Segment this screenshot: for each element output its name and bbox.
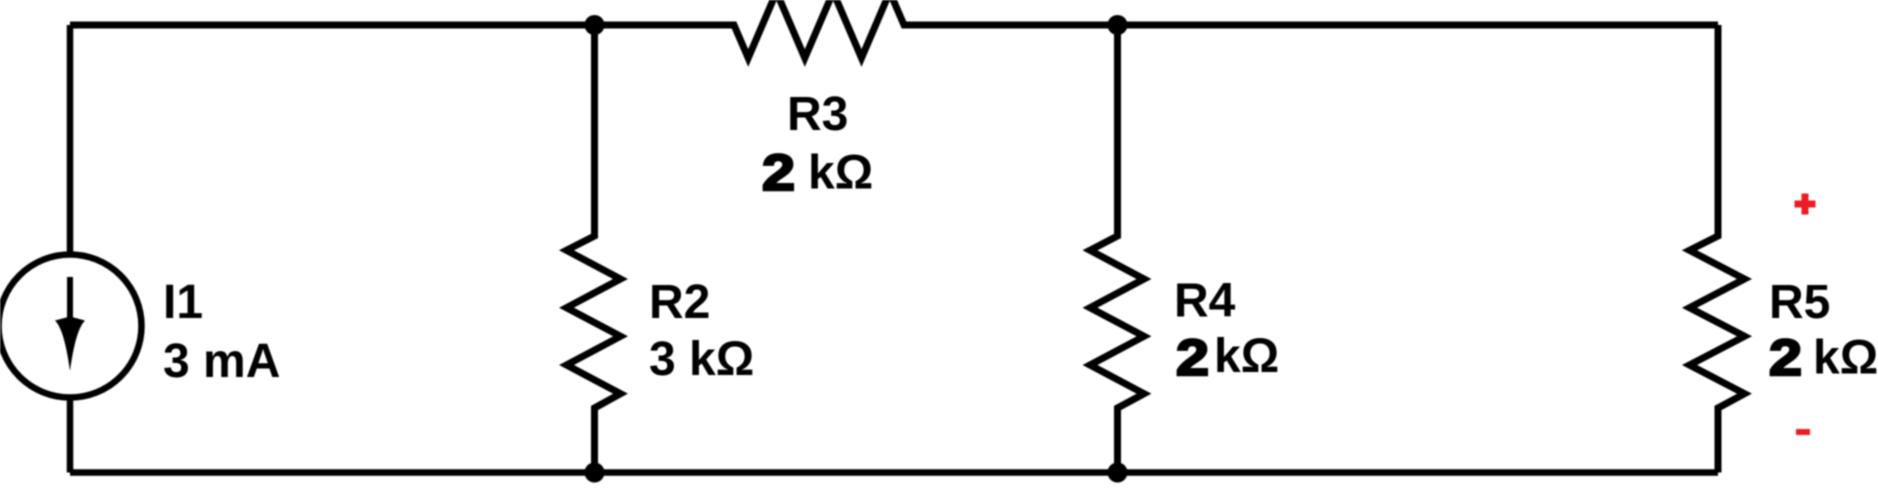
svg-text:R4: R4 (1174, 275, 1236, 328)
svg-text:2: 2 (762, 144, 795, 201)
svg-text:3 kΩ: 3 kΩ (649, 333, 754, 386)
svg-text:2: 2 (1176, 329, 1209, 386)
svg-text:3 mA: 3 mA (163, 335, 280, 388)
svg-text:R3: R3 (787, 88, 848, 141)
svg-text:R2: R2 (649, 276, 710, 329)
svg-text:kΩ: kΩ (1214, 330, 1279, 383)
svg-text:I1: I1 (163, 276, 203, 329)
svg-text:kΩ: kΩ (1813, 332, 1878, 385)
svg-text:kΩ: kΩ (808, 147, 873, 200)
svg-text:2: 2 (1769, 329, 1802, 386)
svg-text:R5: R5 (1769, 276, 1830, 329)
